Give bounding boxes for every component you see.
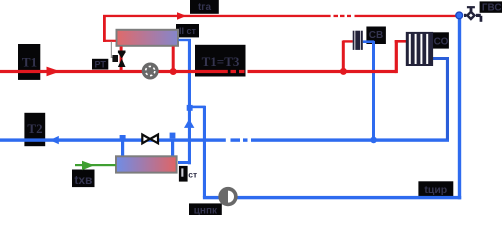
wire blue SO outlet xyxy=(433,57,449,60)
arrow blue up riser xyxy=(184,119,194,128)
label CNPK box xyxy=(189,203,222,216)
wire gray capillary RT xyxy=(111,42,114,59)
node blue branch junction xyxy=(187,105,193,111)
label tcir box xyxy=(418,181,453,196)
wire blue stub stage I left xyxy=(121,140,124,156)
node blue junction stage I right xyxy=(170,133,176,139)
wire blue riser stage I to stage II xyxy=(188,39,191,164)
wire blue SV outlet xyxy=(363,40,374,43)
label T1=T3 box xyxy=(195,45,246,77)
wire blue bottom circulation line xyxy=(203,196,461,199)
pump circulation heating (on red line) xyxy=(142,63,159,80)
arrow blue main line xyxy=(50,136,59,144)
arrow green xyxy=(82,161,94,171)
svg-text:ст: ст xyxy=(188,169,197,179)
svg-text:Т2: Т2 xyxy=(27,121,42,136)
wire blue stage I outlet horizontal xyxy=(178,161,191,164)
svg-text:цнпк: цнпк xyxy=(194,205,218,215)
wire green cold water inlet xyxy=(75,164,116,166)
wire red stub stage II left (through valve) xyxy=(120,47,123,71)
svg-text:tцир: tцир xyxy=(424,184,447,196)
label tga box xyxy=(190,0,219,14)
wire blue branch horizontal xyxy=(189,106,206,109)
wire red main supply xyxy=(0,70,397,73)
wire blue SO drop xyxy=(446,57,449,140)
valve actuator RT xyxy=(112,55,118,62)
heater SV bars xyxy=(353,31,363,50)
label SV box xyxy=(366,27,386,45)
heat exchanger stage II xyxy=(117,30,179,46)
tap GVS xyxy=(464,6,482,22)
wire red riser to SV heater xyxy=(342,40,353,71)
pump CNPK xyxy=(218,187,237,206)
radiator SO xyxy=(406,32,433,66)
label thv box xyxy=(72,170,95,188)
wire blue stub stage I right xyxy=(171,140,174,156)
svg-text:ГВС: ГВС xyxy=(482,3,502,14)
svg-text:tга: tга xyxy=(198,2,211,13)
svg-text:tхв: tхв xyxy=(74,173,92,187)
node red junction stage II xyxy=(170,68,177,75)
wire blue stage II outlet horizontal xyxy=(179,39,191,41)
wire blue circulation drop xyxy=(203,106,206,198)
label T2 box xyxy=(24,113,45,146)
svg-text:СО: СО xyxy=(434,37,449,48)
wire blue right riser to GVS xyxy=(458,16,461,199)
wire blue main return xyxy=(0,138,449,141)
wire red elbow to SO radiator xyxy=(395,40,407,73)
wire red top tga line xyxy=(103,15,457,17)
node GVS blue xyxy=(456,12,463,19)
node blue junction SV drop xyxy=(370,137,377,144)
label RT box xyxy=(92,59,108,70)
heat exchanger stage I xyxy=(116,156,177,172)
label II st box xyxy=(176,24,199,37)
wire blue SV drop xyxy=(372,41,375,140)
wire red DHW outlet stage II xyxy=(103,15,116,42)
label SO box xyxy=(433,32,449,48)
arrow red top line xyxy=(177,12,187,20)
node blue junction stage I left xyxy=(120,135,126,141)
svg-text:Т1=Т3: Т1=Т3 xyxy=(202,54,240,69)
valve control (hourglass) xyxy=(118,51,126,68)
svg-text:РТ: РТ xyxy=(95,59,107,69)
svg-text:II ст: II ст xyxy=(179,26,197,36)
arrow red main line xyxy=(47,67,61,77)
svg-text:СВ: СВ xyxy=(369,30,383,41)
valve bowtie on blue line xyxy=(142,135,158,144)
label T1 box xyxy=(18,44,40,80)
svg-text:Т1: Т1 xyxy=(22,55,37,70)
label I st box xyxy=(179,166,197,182)
label GVS box xyxy=(480,1,502,13)
wire red stub stage II right xyxy=(172,47,175,71)
node red junction SV xyxy=(340,68,347,75)
